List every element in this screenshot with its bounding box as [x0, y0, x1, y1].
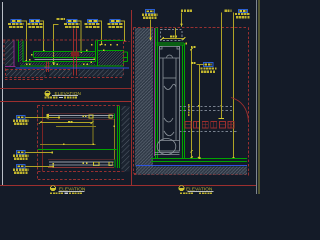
svg-text:ELEVATION: ELEVATION [186, 187, 213, 192]
svg-text:ELEVATION: ELEVATION [59, 187, 86, 192]
